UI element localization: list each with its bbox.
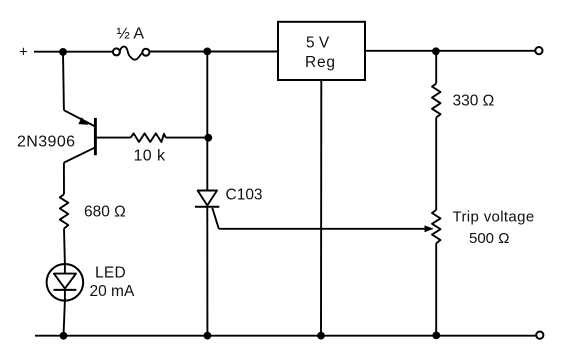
resistor 10 k [131,133,166,164]
svg-text:5 V: 5 V [306,34,330,51]
svg-text:10 k: 10 k [134,148,166,165]
junction node at (207.4,335.6) [204,332,212,340]
wire potentiometer to bottom rail [435,243,437,335]
svg-text:20 mA: 20 mA [90,283,135,300]
junction node at (321,335.6) [317,332,325,340]
resistor 330 ohm [432,84,494,118]
wire emitter vertical from node [62,52,65,110]
wire regulator ground to bottom rail [320,80,322,336]
svg-text:Reg: Reg [305,54,336,71]
terminal positive input + [19,44,28,61]
svg-text:Trip voltage: Trip voltage [453,208,535,225]
svg-text:500 Ω: 500 Ω [469,230,509,247]
wire LED to bottom rail [64,301,65,336]
LED D1 20 mA [47,264,135,301]
wire 10 k to middle node [166,137,209,139]
wire base to 10 k resistor [95,137,130,139]
svg-text:C103: C103 [226,186,263,203]
wire bottom rail [35,335,536,337]
wire middle vertical (node to SCR anode) [206,51,208,190]
SCR Q2 C103 [195,186,263,229]
terminal output positive (open circle) [535,47,542,54]
potentiometer trip voltage 500 ohm [432,208,535,247]
terminal output negative (open circle) [536,332,543,339]
junction node at (208.3,137.7) [204,134,212,142]
wire 330 ohm to potentiometer [435,118,437,211]
transistor Q1 2N3906 (PNP) [17,110,95,162]
wire wiper arrow from SCR gate to potentiometer [219,225,434,232]
wire regulator output to terminal [365,50,536,52]
svg-text:2N3906: 2N3906 [17,133,75,150]
wire fuse to regulator [150,51,279,53]
junction node at (436.3,335.4) [432,332,440,340]
wire 680 ohm to LED [63,229,66,264]
svg-text:+: + [19,44,28,61]
wire node to 330 ohm resistor [435,51,437,83]
junction node at (207.3,51.4) [203,48,211,56]
fuse F1 1/2 A [113,26,149,60]
junction node at (63.5,335.8) [60,332,68,340]
junction node at (435.9,51.3) [432,47,440,55]
svg-text:330 Ω: 330 Ω [453,93,495,110]
wire collector down to 680 ohm [63,163,65,195]
svg-text:680 Ω: 680 Ω [84,204,126,221]
wire SCR cathode to bottom rail [206,207,208,336]
voltage regulator U1 5 V Reg [278,22,365,80]
resistor 680 ohm [60,194,126,228]
svg-text:LED: LED [95,265,126,282]
svg-text:½ A: ½ A [117,26,145,43]
wire top-left from + to fuse [34,51,113,53]
junction node at (63,51.7) [59,48,67,56]
